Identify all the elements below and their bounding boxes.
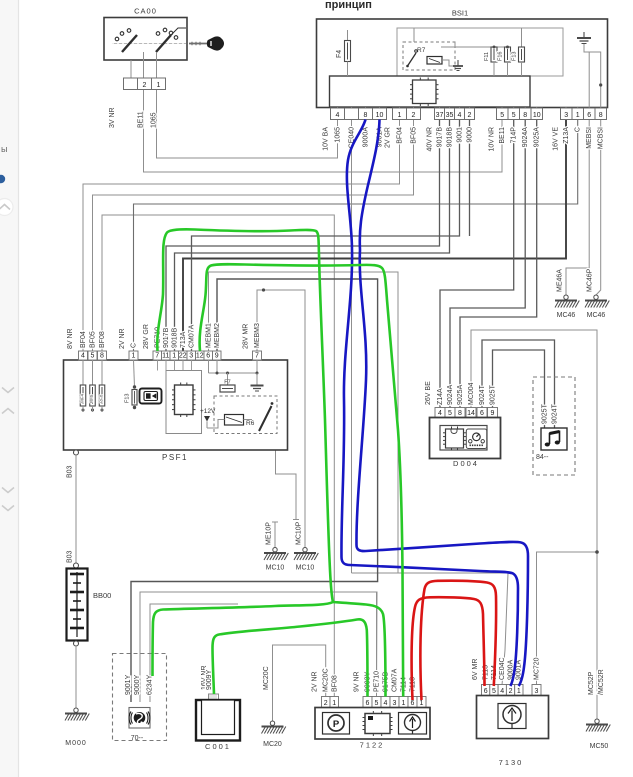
- svg-text:5: 5: [375, 700, 379, 707]
- ground MC20: [270, 721, 274, 725]
- svg-text:6: 6: [480, 410, 484, 417]
- svg-text:2: 2: [412, 112, 416, 119]
- PSF1 connector A icon: [140, 389, 162, 404]
- wire CE040 BSI1 to 7130 pin 4 long vertical: [351, 120, 353, 574]
- svg-text:1: 1: [172, 352, 176, 359]
- CA00 lead stubs to connector: [130, 60, 132, 78]
- svg-text:MEBM2: MEBM2: [214, 323, 221, 348]
- svg-text:12: 12: [196, 352, 204, 359]
- PSF1 chip: [175, 385, 194, 415]
- svg-text:1: 1: [332, 700, 336, 707]
- PSF1 internal fuse PF5: [92, 360, 94, 385]
- svg-text:35: 35: [446, 112, 454, 119]
- svg-text:9018B: 9018B: [172, 327, 179, 348]
- svg-text:PSF1: PSF1: [162, 453, 188, 462]
- svg-text:7: 7: [155, 352, 159, 359]
- BSI1 ground wires to pins 6 and 8: [584, 44, 589, 108]
- fuse F11: [491, 47, 497, 62]
- svg-text:5: 5: [91, 352, 95, 359]
- BSI1 connector group 16V VE pins: [561, 108, 573, 120]
- svg-text:9001Y: 9001Y: [125, 674, 132, 695]
- D004 box: [430, 418, 501, 459]
- CA00 switch arm 2: [156, 35, 171, 52]
- sidebar chevron down 1: [2, 388, 14, 393]
- D004 gauge icon: [466, 429, 487, 449]
- wire 9000Y 70-- box to 7122: [140, 592, 377, 702]
- BSI1 connector group 10V NR pins: [497, 108, 509, 120]
- PSF1 internal fuse PF8: [101, 360, 103, 385]
- svg-text:9000: 9000: [467, 127, 474, 143]
- svg-text:P: P: [333, 719, 340, 730]
- svg-text:8: 8: [458, 410, 462, 417]
- svg-text:9025A: 9025A: [534, 127, 541, 148]
- svg-text:10V NR: 10V NR: [489, 127, 496, 152]
- svg-text:C: C: [575, 127, 582, 132]
- wire 9025T D004 pin 9 to box 84: [493, 350, 545, 428]
- sidebar chevron up 2: [2, 409, 14, 414]
- svg-text:MC10P: MC10P: [296, 521, 303, 545]
- R7 wire to internal ground: [442, 60, 458, 66]
- wire 9000 BSI1 pin 2 stub joining node: [469, 120, 471, 237]
- svg-text:40V NR: 40V NR: [427, 127, 434, 152]
- svg-text:MC46: MC46: [557, 312, 576, 319]
- wire BF05 BSI1 to PSF1 pin 5: [93, 120, 414, 352]
- svg-text:8V NR: 8V NR: [67, 328, 74, 349]
- svg-text:9024A: 9024A: [522, 127, 529, 148]
- svg-text:1: 1: [517, 688, 521, 695]
- PSF1 box: [64, 360, 288, 450]
- svg-text:9024T: 9024T: [479, 384, 486, 405]
- svg-text:5: 5: [448, 410, 452, 417]
- svg-text:4: 4: [438, 410, 442, 417]
- svg-text:84--: 84--: [536, 454, 549, 461]
- svg-text:2V NR: 2V NR: [119, 328, 126, 349]
- battery BB00 top connector: [74, 563, 79, 568]
- svg-text:MC52P: MC52P: [588, 671, 595, 695]
- svg-text:1: 1: [402, 700, 406, 707]
- svg-text:16V VE: 16V VE: [553, 127, 560, 151]
- relay R7 dashed box: [403, 42, 455, 70]
- sidebar blue dot: [0, 175, 5, 183]
- svg-text:10V BA: 10V BA: [323, 127, 330, 151]
- wire MC720 7130 pin 3 to MC50 junction: [537, 552, 598, 685]
- svg-text:6234Y: 6234Y: [147, 674, 154, 695]
- wire to M000: [75, 646, 77, 710]
- wire MCBS1 BSI1 pin 8 to MC46P ground: [596, 120, 601, 296]
- svg-text:2V NR: 2V NR: [312, 671, 319, 692]
- svg-text:BF08: BF08: [99, 331, 106, 348]
- svg-text:28V GR: 28V GR: [143, 324, 150, 349]
- svg-text:2V GR: 2V GR: [385, 127, 392, 148]
- C001 box: [196, 700, 240, 741]
- wire 714P BSI1 to D004 pin 4: [440, 120, 514, 408]
- svg-text:9: 9: [491, 410, 495, 417]
- 7130 gauge icon: [498, 704, 526, 729]
- C001 pin box: [209, 694, 219, 700]
- 7122 chip icon: [365, 714, 390, 734]
- sidebar circular button with chevron up: [0, 199, 13, 216]
- wire BE11 from CA00 pin 2 to BSI1 pin 5: [144, 90, 503, 173]
- box 70-- dashed: [113, 654, 167, 741]
- svg-text:4: 4: [500, 688, 504, 695]
- wire 9001 BSI1 pin 4 to PSF1 pin 3: [192, 120, 460, 352]
- 7122 pin row right group: [363, 697, 372, 708]
- svg-text:B03: B03: [67, 550, 74, 563]
- sidebar divider line: [18, 0, 20, 777]
- svg-text:CE04C: CE04C: [499, 657, 506, 680]
- svg-text:6: 6: [366, 700, 370, 707]
- BSI1 outer box: [317, 19, 608, 108]
- svg-text:PF8: PF8: [99, 394, 104, 403]
- svg-text:10: 10: [376, 112, 384, 119]
- svg-text:9018B: 9018B: [447, 127, 454, 148]
- svg-text:PE710: PE710: [374, 671, 381, 692]
- wire green branch to 70-- box: [153, 602, 334, 676]
- svg-text:4: 4: [458, 112, 462, 119]
- svg-text:4: 4: [81, 352, 85, 359]
- wire 1065 from CA00 pin 1 to BSI1 pin 4: [157, 90, 338, 159]
- svg-text:7: 7: [255, 352, 259, 359]
- svg-text:F13: F13: [125, 394, 131, 403]
- svg-text:Z14A: Z14A: [437, 388, 444, 405]
- svg-text:3: 3: [189, 352, 193, 359]
- svg-text:ы: ы: [1, 144, 7, 154]
- PSF1 internal ground: [256, 373, 258, 385]
- svg-text:1: 1: [420, 700, 424, 707]
- battery BB00: [67, 569, 88, 641]
- svg-text:MC10: MC10: [296, 565, 315, 572]
- wire bus to fuses F11 F16: [441, 46, 508, 48]
- svg-text:BE11: BE11: [499, 127, 506, 144]
- svg-text:37: 37: [436, 112, 444, 119]
- svg-text:22: 22: [179, 352, 187, 359]
- svg-text:MC50: MC50: [590, 743, 609, 750]
- svg-text:F4: F4: [336, 50, 343, 58]
- svg-text:7122: 7122: [360, 741, 385, 750]
- R6 switch diagonal: [259, 406, 272, 431]
- svg-text:9V NR: 9V NR: [354, 671, 361, 692]
- svg-text:PF5: PF5: [89, 394, 94, 403]
- fuse F16: [505, 47, 511, 62]
- PSF1 fuse F13: [134, 360, 135, 387]
- ground MC50: [595, 719, 599, 723]
- svg-text:BF05: BF05: [90, 331, 97, 348]
- wire 9000A blue BSI1 pin 8 to 7130: [341, 120, 518, 687]
- svg-text:R6: R6: [246, 420, 255, 427]
- PSF1 pin row group 8V NR: [79, 351, 88, 360]
- wire 9018B BSI1 pin 35 to PSF1 pin 1: [175, 120, 450, 352]
- R6 feed from bus: [244, 419, 253, 421]
- wire from PSF1 bottom L-shape: [276, 450, 297, 520]
- svg-text:26V BE: 26V BE: [425, 381, 432, 405]
- BSI1 microcontroller chip: [413, 80, 437, 104]
- wire PE710 green PSF1 pin 7 up and over: [157, 229, 333, 602]
- PSF1 pin 1: [129, 351, 138, 360]
- svg-text:D004: D004: [453, 459, 479, 468]
- svg-text:BF04: BF04: [397, 127, 404, 144]
- svg-text:1: 1: [157, 82, 161, 89]
- svg-text:10: 10: [533, 112, 541, 119]
- svg-text:MC20C: MC20C: [263, 666, 270, 690]
- 7122 pin row left group: [322, 697, 331, 708]
- battery bottom connector: [74, 641, 79, 646]
- wire B03 upper: [75, 455, 77, 563]
- 7122 box: [315, 708, 430, 740]
- 7122 parking icon: [323, 713, 350, 735]
- svg-text:2: 2: [509, 688, 513, 695]
- svg-text:MCBSI: MCBSI: [598, 127, 605, 149]
- svg-text:2: 2: [143, 82, 147, 89]
- svg-text:BE11: BE11: [138, 111, 145, 128]
- svg-text:28V MR: 28V MR: [243, 324, 250, 349]
- svg-text:2: 2: [468, 112, 472, 119]
- svg-text:R7: R7: [417, 47, 426, 54]
- svg-text:1: 1: [576, 112, 580, 119]
- PSF1 pin row group 28V GR: [153, 351, 162, 360]
- wire 9024T D004 pin 6 to box 84: [482, 340, 555, 428]
- wire BF08 7122 pin 1 to PSF1 pin 8: [102, 215, 334, 697]
- music note glyph: [550, 432, 560, 445]
- sidebar chevron down 4: [2, 506, 14, 511]
- svg-text:B03: B03: [67, 465, 74, 478]
- svg-text:BF05: BF05: [411, 127, 418, 144]
- svg-text:70--: 70--: [131, 735, 144, 742]
- svg-text:9000A: 9000A: [363, 127, 370, 148]
- svg-text:BF04: BF04: [80, 331, 87, 348]
- svg-text:14: 14: [467, 410, 475, 417]
- wire MEBM3 PSF1 pin 7 to MC10 grounds: [257, 290, 305, 548]
- svg-text:9025T: 9025T: [490, 384, 497, 405]
- CA00 switch arm 1: [122, 35, 137, 52]
- wire BF04 BSI1 to PSF1 pin 4: [83, 120, 400, 352]
- wire Z13A BSI1 pin 3 to PSF1 pin 22 thick: [183, 120, 566, 352]
- svg-text:5: 5: [492, 688, 496, 695]
- wire 7114 red 7122 to 7130 pin 5: [420, 581, 496, 700]
- svg-text:MC20: MC20: [263, 741, 282, 748]
- svg-text:3V NR: 3V NR: [109, 107, 116, 128]
- R7 switch contact: [408, 53, 417, 66]
- wire green branch to 7122 pin 4: [333, 602, 386, 697]
- PSF1 bottom connector circle: [74, 450, 79, 455]
- svg-text:2: 2: [324, 700, 328, 707]
- ground MC10 right: [303, 548, 307, 552]
- svg-text:MC10: MC10: [266, 565, 285, 572]
- svg-text:MC46P: MC46P: [587, 268, 594, 292]
- R7 feed wire: [413, 28, 415, 42]
- 7130 pin row: [482, 685, 490, 696]
- ground MC46P: [594, 295, 598, 299]
- ground ME46A: [564, 295, 568, 299]
- wire MC20C 7122 pin 2 to MC20 ground: [273, 645, 326, 721]
- svg-text:CA00: CA00: [134, 7, 157, 16]
- wire 9001A blue BSI1 pin 10 to 7130: [356, 120, 528, 687]
- ground MC10 left: [273, 548, 277, 552]
- CA00 connector pin row: [124, 78, 138, 90]
- svg-text:6: 6: [587, 112, 591, 119]
- svg-text:4: 4: [384, 700, 388, 707]
- wire 9024A BSI1 pin 8 to D004 pin 5: [450, 120, 525, 408]
- svg-text:6: 6: [484, 688, 488, 695]
- svg-text:9025T: 9025T: [542, 403, 549, 424]
- svg-text:MEBSI: MEBSI: [586, 127, 593, 149]
- svg-text:3: 3: [564, 112, 568, 119]
- BSI1 inner routing box: [397, 28, 563, 76]
- svg-text:C: C: [131, 343, 138, 348]
- wire MC004 D004 pin 14 to MC50 ground: [471, 330, 597, 719]
- key icon: [189, 43, 211, 45]
- svg-text:3: 3: [393, 700, 397, 707]
- PSF1 fuse F7: [227, 373, 229, 385]
- svg-text:MC46: MC46: [587, 312, 606, 319]
- svg-text:1: 1: [132, 352, 136, 359]
- svg-text:F7: F7: [224, 380, 230, 386]
- svg-text:1065: 1065: [151, 112, 158, 128]
- svg-text:BSI1: BSI1: [452, 9, 468, 18]
- BSI1 connector group 2V GR pins: [393, 108, 407, 120]
- CA00 dashed actuation line: [112, 43, 186, 45]
- svg-text:9: 9: [215, 352, 219, 359]
- svg-text:M000: M000: [65, 740, 87, 747]
- svg-text:9024A: 9024A: [447, 384, 454, 405]
- svg-text:7130: 7130: [499, 758, 524, 767]
- PSF1 right bus: [208, 360, 210, 373]
- wire 9017B BSI1 pin 37 to PSF1 pin 11: [166, 120, 440, 352]
- wire 9001Y PSF1 pin 6 to 70-- box: [131, 279, 378, 702]
- svg-text:1: 1: [398, 112, 402, 119]
- junction node MC50 net: [595, 550, 599, 554]
- svg-text:ME46A: ME46A: [557, 269, 564, 292]
- svg-text:8: 8: [599, 112, 603, 119]
- svg-text:9017B: 9017B: [437, 127, 444, 148]
- D004 chip icon: [446, 429, 464, 448]
- svg-text:11: 11: [162, 352, 169, 359]
- PSF1 chip outer box: [166, 371, 202, 434]
- svg-text:9001: 9001: [457, 127, 464, 143]
- svg-text:CM07A: CM07A: [189, 324, 196, 348]
- svg-text:9017B: 9017B: [163, 327, 170, 348]
- svg-text:9025A: 9025A: [457, 384, 464, 405]
- svg-text:8: 8: [100, 352, 104, 359]
- D004 pin row: [435, 408, 445, 418]
- music note icon box: [541, 428, 567, 450]
- BSI1 main module bar: [330, 76, 531, 107]
- R6 coil: [225, 415, 244, 426]
- D004 inner box: [440, 426, 487, 451]
- wire ME10P stub to MC10 ground: [272, 521, 278, 523]
- svg-text:CM07A: CM07A: [392, 668, 399, 692]
- ignition switch CA00 box: [104, 18, 187, 61]
- wire MEBM1 PSF1 pin 12 to 7130 via right vertical: [209, 272, 399, 573]
- BSI1 connector group 10V BA pins: [331, 108, 345, 120]
- svg-text:ME10P: ME10P: [266, 522, 273, 545]
- svg-text:MEBM1: MEBM1: [206, 323, 213, 348]
- wire MEBS1 BSI1 pin 6 to ME46A ground: [566, 120, 589, 296]
- svg-text:5: 5: [500, 112, 504, 119]
- BSI1 right ground symbol: [583, 32, 585, 38]
- wire 9025A BSI1 pin 10 to D004 pin 8: [460, 120, 537, 408]
- svg-text:MEBM3: MEBM3: [254, 323, 261, 348]
- svg-text:MF4: MF4: [80, 393, 85, 403]
- svg-text:C001: C001: [205, 742, 231, 751]
- fuse F4: [347, 30, 349, 41]
- 7122 gauge icon: [399, 713, 427, 735]
- svg-text:9024T: 9024T: [552, 403, 559, 424]
- svg-text:5: 5: [512, 112, 516, 119]
- svg-text:713A: 713A: [180, 331, 187, 348]
- PSF1 relay R6 dashed box: [214, 396, 277, 434]
- svg-text:4: 4: [336, 112, 340, 119]
- fuse F13: [521, 28, 523, 47]
- wire PE710 lead under 7122: [376, 592, 378, 697]
- svg-text:принцип: принцип: [325, 0, 372, 11]
- svg-text:/MC52R: /MC52R: [598, 669, 605, 695]
- svg-text:1065: 1065: [335, 127, 342, 143]
- PSF1 internal fuse MF4: [82, 360, 84, 385]
- wire green PSF1 pin 12 to 7122: [200, 264, 404, 696]
- svg-text:F13: F13: [512, 52, 518, 61]
- ground M000: [74, 708, 78, 712]
- svg-text:BF08: BF08: [332, 675, 339, 692]
- svg-text:3: 3: [535, 688, 539, 695]
- 70-- icon: [129, 708, 150, 729]
- svg-text:6V MR: 6V MR: [472, 659, 479, 680]
- wire C BSI1 16V VE pin 1 to PSF1 pin 1: [134, 120, 578, 352]
- svg-text:MC720: MC720: [534, 657, 541, 680]
- svg-text:F11: F11: [484, 52, 490, 61]
- wire 7113 red 7122 to 7130 pin 6: [412, 597, 485, 700]
- svg-text:8: 8: [523, 112, 527, 119]
- BSI1 internal ground symbol: [457, 60, 459, 66]
- CA00 internal wire to right contact: [171, 28, 186, 35]
- svg-text:8: 8: [364, 112, 368, 119]
- svg-text:Z13A: Z13A: [563, 127, 570, 144]
- PSF1 pin 7 28V MR: [253, 351, 262, 360]
- box 84 dashed: [533, 377, 575, 475]
- sidebar strip background: [0, 0, 18, 777]
- CA00 contact dots: [115, 37, 119, 41]
- 7130 box: [477, 696, 549, 739]
- svg-text:6: 6: [206, 352, 210, 359]
- svg-text:6: 6: [411, 700, 415, 707]
- BSI1 pin leads inside bar: [337, 107, 339, 108]
- svg-text:BB00: BB00: [93, 591, 111, 600]
- svg-text:F16: F16: [498, 52, 504, 61]
- wire 9009Y green C001 to 7122 pin 6: [213, 619, 368, 696]
- svg-text:9000Y: 9000Y: [134, 674, 141, 695]
- BSI1 connector group 40V NR pins: [435, 108, 445, 120]
- svg-text:MC20C: MC20C: [323, 668, 330, 692]
- sidebar chevron down 3: [2, 488, 14, 493]
- R7 coil: [427, 57, 442, 65]
- PSF1 pin leads into chip box: [157, 360, 159, 371]
- svg-text:MC004: MC004: [468, 382, 475, 405]
- wire CE04C horizontal to 7130 pin 4: [352, 573, 509, 685]
- svg-text:714P: 714P: [511, 127, 518, 144]
- wire 6234Y gray lead under green: [150, 604, 238, 702]
